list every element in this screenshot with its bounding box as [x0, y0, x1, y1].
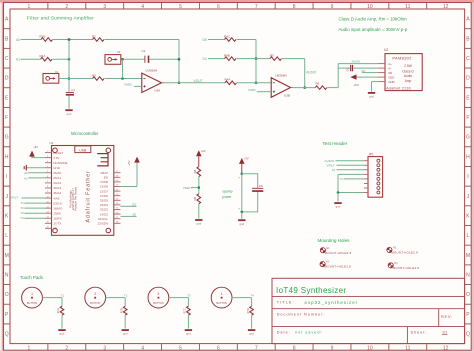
svg-text:N: N: [466, 273, 470, 279]
wire button 2 to T2 node: [106, 297, 126, 299]
svg-text:4: 4: [221, 292, 223, 296]
svg-text:L: L: [5, 233, 8, 239]
touch button S4: [211, 287, 232, 308]
svg-text:BUTTON: BUTTON: [153, 302, 163, 305]
svg-text:Particle Pin Name: Particle Pin Name: [74, 187, 78, 211]
svg-text:Class D Audio Amp, Rin = 10kOh: Class D Audio Amp, Rin = 10kOhm: [339, 17, 408, 22]
svg-text:not saved!: not saved!: [295, 331, 323, 335]
svg-text:BUTTON: BUTTON: [90, 302, 100, 305]
svg-text:U1: U1: [50, 141, 54, 145]
wire button 3 to T3 node: [169, 297, 189, 299]
wire VMID stub: [191, 187, 199, 189]
svg-text:O: O: [5, 292, 9, 298]
svg-text:1: 1: [31, 292, 33, 296]
wire X2 to C2: [121, 58, 145, 60]
svg-text:I: I: [467, 174, 468, 180]
svg-text:4/A5: 4/A5: [53, 196, 60, 200]
wire VMID to U3B noninverting input: [257, 91, 271, 93]
svg-text:T3: T3: [187, 294, 191, 298]
svg-text:AUDIO: AUDIO: [325, 159, 335, 163]
svg-text:gnd: gnd: [336, 205, 341, 209]
wire R3 to op-amp inverting input: [105, 78, 142, 80]
wire T3 down: [187, 298, 189, 307]
svg-text:25/A1: 25/A1: [53, 176, 61, 180]
ground below C1: [65, 109, 72, 111]
svg-text:R4A: R4A: [225, 78, 231, 82]
wire T2 down: [124, 298, 126, 307]
svg-text:BUTTON: BUTTON: [27, 302, 37, 305]
microcontroller U1 Adafruit Feather: [52, 146, 114, 236]
header JP1: [368, 157, 383, 198]
svg-text:D5: D5: [203, 38, 207, 42]
svg-text:13/D8: 13/D8: [100, 185, 108, 189]
wire R4B to node: [237, 58, 271, 60]
svg-text:7: 7: [255, 346, 258, 352]
svg-text:R7C: R7C: [183, 308, 187, 313]
svg-text:REV:: REV:: [441, 315, 453, 319]
svg-text:H1: H1: [326, 246, 330, 250]
wire VOUT: [165, 82, 226, 84]
svg-text:VBAT: VBAT: [100, 171, 108, 175]
svg-text:SD: SD: [388, 71, 392, 75]
wire T1 to JP1 pin5: [344, 178, 365, 180]
touch button S1: [22, 287, 43, 308]
svg-text:gnd: gnd: [196, 222, 201, 226]
node inverting input junction: [121, 77, 124, 80]
svg-text:H2: H2: [326, 260, 330, 264]
svg-text:VFILT: VFILT: [10, 196, 18, 200]
wire A1: [21, 58, 41, 60]
wire cap branch: [242, 174, 258, 212]
svg-text:U3A: U3A: [154, 88, 161, 92]
svg-text:+5V: +5V: [353, 83, 358, 87]
title block: [272, 278, 465, 343]
svg-text:T3: T3: [20, 211, 24, 215]
svg-text:C: C: [5, 56, 9, 62]
svg-text:opamp: opamp: [222, 189, 232, 193]
svg-text:2.5W: 2.5W: [404, 64, 413, 68]
frame row ticks and letters: [4, 28, 11, 30]
svg-text:LM358N: LM358N: [275, 73, 287, 77]
svg-text:T1: T1: [61, 294, 65, 298]
svg-text:JP1: JP1: [368, 153, 374, 157]
wire summing2 vertical: [255, 40, 257, 83]
wire feedback vertical: [178, 40, 180, 83]
wire R7A to ground: [61, 315, 63, 328]
node opamp power bottom junction: [241, 211, 244, 214]
wire R5 to output: [282, 58, 305, 60]
wire summing vertical: [68, 40, 70, 92]
svg-text:3: 3: [157, 292, 159, 296]
ground at opamp power: [238, 219, 245, 221]
svg-text:21: 21: [53, 227, 57, 231]
wire audio riser to C6: [338, 67, 350, 69]
svg-text:26/A0: 26/A0: [53, 171, 61, 175]
svg-text:GND: GND: [388, 80, 394, 84]
svg-text:gnd: gnd: [186, 332, 191, 336]
svg-text:R4C: R4C: [224, 34, 231, 38]
wire +5V to VDD: [357, 76, 378, 78]
svg-text:LM358N: LM358N: [146, 69, 158, 73]
svg-text:MOUNT-HOLE2.8: MOUNT-HOLE2.8: [393, 266, 420, 270]
svg-text:IoT49 Synthesizer: IoT49 Synthesizer: [276, 286, 346, 295]
svg-text:VFILT: VFILT: [327, 163, 335, 167]
wire +3V to 3.3V pin: [32, 157, 45, 159]
svg-text:T4: T4: [20, 216, 24, 220]
svg-text:8: 8: [293, 4, 296, 10]
node row B junction: [68, 38, 71, 41]
wire to VMID node: [198, 177, 200, 194]
svg-text:3: 3: [103, 346, 106, 352]
svg-text:32/D3: 32/D3: [100, 208, 108, 212]
svg-text:power: power: [222, 195, 232, 199]
battery connector on U1: [97, 154, 108, 166]
svg-text:1: 1: [28, 346, 31, 352]
svg-text:D: D: [466, 76, 470, 82]
svg-text:MOUNT-HOLE2.8: MOUNT-HOLE2.8: [325, 251, 352, 255]
frame column ticks and numbers: [47, 3, 49, 10]
ground at touch pad 4: [248, 329, 255, 331]
svg-text:12/D7: 12/D7: [100, 189, 108, 193]
svg-text:A1: A1: [24, 176, 28, 180]
svg-text:gnd: gnd: [60, 332, 65, 336]
wire opamp power vertical: [241, 174, 243, 212]
wire A0 at U1: [28, 172, 45, 174]
svg-text:33/D5: 33/D5: [100, 199, 108, 203]
wire R7B to ground: [124, 315, 126, 328]
svg-text:+5V: +5V: [127, 160, 131, 165]
U1 right pins: [114, 172, 121, 174]
wire R1A to summing node: [53, 58, 70, 60]
wire amp GND down: [372, 81, 378, 83]
svg-text:Mounting Holes: Mounting Holes: [318, 238, 351, 243]
wire R7C to ground: [187, 315, 189, 328]
svg-text:Amp: Amp: [405, 79, 412, 83]
wire R4C to node: [237, 39, 257, 41]
svg-text:39/A3: 39/A3: [53, 186, 61, 190]
touch button S3: [148, 287, 169, 308]
ground at JP1: [334, 202, 341, 204]
svg-text:T4: T4: [250, 294, 254, 298]
svg-text:5/SCK: 5/SCK: [53, 201, 62, 205]
svg-text:12: 12: [443, 4, 449, 10]
svg-text:PAM8302: PAM8302: [392, 56, 412, 61]
svg-text:23/SDA: 23/SDA: [97, 222, 108, 226]
node summing junction row C: [68, 58, 71, 61]
svg-text:19/MI: 19/MI: [53, 211, 61, 215]
svg-text:gnd: gnd: [369, 95, 374, 99]
+5V supply arrow at amp VDD: [350, 74, 356, 79]
svg-text:GND: GND: [53, 166, 61, 170]
wire D4: [208, 58, 225, 60]
svg-text:Touch Pads: Touch Pads: [20, 275, 44, 280]
svg-text:O: O: [466, 292, 470, 298]
wire audio to amp A+: [338, 63, 377, 65]
wire X1 to summing node: [59, 78, 69, 80]
svg-text:10: 10: [367, 4, 373, 10]
svg-text:VOUT: VOUT: [194, 79, 203, 83]
svg-text:Date:: Date:: [277, 331, 291, 335]
svg-text:H4: H4: [394, 261, 398, 265]
svg-text:4: 4: [141, 4, 144, 10]
svg-text:8: 8: [293, 346, 296, 352]
svg-text:5: 5: [179, 4, 182, 10]
svg-text:+3V: +3V: [201, 149, 206, 153]
svg-text:Audio input amplitude = 300mV: Audio input amplitude = 300mV p-p: [339, 27, 408, 32]
U1 left pins: [45, 152, 52, 154]
svg-text:1/1: 1/1: [442, 331, 447, 335]
wire SD to amp: [362, 72, 378, 74]
wire button 4 to T4 node: [232, 297, 252, 299]
svg-text:12: 12: [443, 346, 449, 352]
svg-text:D4: D4: [203, 57, 207, 61]
svg-text:10: 10: [367, 346, 373, 352]
svg-text:EN: EN: [104, 176, 108, 180]
svg-text:T1: T1: [339, 177, 343, 181]
svg-text:VDD: VDD: [388, 76, 394, 80]
svg-text:C2: C2: [142, 49, 146, 53]
svg-text:2: 2: [65, 4, 68, 10]
svg-text:gnd: gnd: [249, 332, 254, 336]
svg-text:TITLE:: TITLE:: [277, 300, 295, 304]
wire A1 to JP1 pin3: [337, 169, 365, 171]
wire R1B to R2: [53, 39, 93, 41]
svg-text:D: D: [5, 76, 9, 82]
svg-text:7: 7: [255, 4, 258, 10]
svg-text:VMID: VMID: [248, 88, 257, 92]
svg-text:2: 2: [94, 292, 96, 296]
wire opamp power to ground: [241, 212, 243, 219]
touch button S2: [85, 287, 106, 308]
svg-text:18/MO: 18/MO: [53, 206, 63, 210]
op-amp U3A output pin: [162, 82, 165, 84]
wire +5V to U1: [136, 163, 138, 187]
svg-text:G: G: [466, 135, 470, 141]
wire VFILT at U1: [22, 197, 46, 199]
svg-text:VMID: VMID: [183, 186, 192, 190]
svg-text:F: F: [5, 115, 8, 121]
svg-text:3: 3: [103, 4, 106, 10]
svg-text:M: M: [466, 253, 470, 259]
svg-text:14/D2: 14/D2: [100, 212, 108, 216]
svg-text:9: 9: [331, 346, 334, 352]
svg-text:I: I: [6, 174, 7, 180]
svg-text:M: M: [5, 253, 9, 259]
node JP1 ground junction: [337, 191, 340, 194]
wire R2 to feedback vertical: [105, 39, 180, 41]
svg-text:gnd: gnd: [67, 112, 72, 116]
wire C1 to ground: [68, 96, 70, 109]
svg-text:6: 6: [217, 4, 220, 10]
wire R4A to inverting input U3B: [237, 82, 271, 84]
ground at touch pad 3: [185, 329, 192, 331]
svg-text:Sheet:: Sheet:: [411, 331, 428, 335]
svg-text:Q: Q: [5, 332, 9, 338]
wire AUDIO to JP1 pin1: [336, 160, 365, 162]
wire VFILT to JP1 pin2: [337, 164, 365, 166]
ground at touch pad 1: [58, 329, 65, 331]
svg-text:A0: A0: [16, 38, 20, 42]
wire C2 to feedback vertical: [149, 58, 179, 60]
wire gnd to U1: [27, 167, 45, 169]
svg-text:gnd: gnd: [239, 222, 244, 226]
svg-text:Filter and Summing Amplifier: Filter and Summing Amplifier: [27, 16, 94, 21]
svg-text:4: 4: [141, 346, 144, 352]
svg-text:15/D4: 15/D4: [100, 203, 108, 207]
svg-text:16/RX: 16/RX: [53, 216, 61, 220]
wire R7D to ground: [251, 315, 253, 328]
svg-text:27/D6: 27/D6: [100, 194, 108, 198]
svg-text:AUDIO: AUDIO: [306, 70, 317, 74]
node C2 left junction: [121, 58, 124, 61]
svg-text:H: H: [5, 154, 9, 160]
wire R6 to riser: [327, 87, 338, 89]
svg-text:+3V: +3V: [244, 157, 249, 161]
svg-text:NC/MODE: NC/MODE: [53, 161, 67, 165]
svg-text:A-: A-: [388, 67, 391, 71]
svg-text:T1: T1: [20, 201, 24, 205]
svg-text:A0: A0: [24, 171, 28, 175]
svg-text:RESET: RESET: [53, 151, 63, 155]
ground at divider: [195, 219, 202, 221]
node opamp power top junction: [241, 173, 244, 176]
wire audio riser: [337, 64, 339, 88]
svg-text:Class-D: Class-D: [402, 69, 414, 73]
wire VMID to noninverting input: [134, 85, 142, 87]
svg-text:MOUNT-HOLE2.8: MOUNT-HOLE2.8: [391, 251, 418, 255]
svg-text:Microcontroller: Microcontroller: [71, 131, 99, 136]
wire D5: [208, 39, 225, 41]
svg-text:R6: R6: [316, 81, 320, 85]
svg-text:11: 11: [405, 346, 410, 352]
ground symbol at U1 GND pin: [25, 165, 27, 171]
svg-text:L: L: [467, 233, 470, 239]
svg-text:VUSB: VUSB: [100, 180, 108, 184]
svg-text:R4B: R4B: [224, 53, 230, 57]
svg-text:G: G: [5, 135, 9, 141]
wire A1 at U1: [28, 177, 45, 179]
svg-text:+3V: +3V: [33, 145, 38, 149]
svg-text:11: 11: [405, 4, 410, 10]
wire feedback2 vertical: [304, 59, 306, 88]
svg-text:A+: A+: [388, 62, 392, 66]
mounting hole H1: [320, 248, 325, 253]
svg-text:5: 5: [179, 346, 182, 352]
svg-text:H: H: [466, 154, 470, 160]
svg-text:22/SCL: 22/SCL: [98, 217, 108, 221]
amplifier module U2 PAM8302: [385, 54, 422, 91]
svg-text:R7D: R7D: [246, 308, 250, 313]
svg-text:34/A2: 34/A2: [53, 181, 61, 185]
wire inverting input vertical: [122, 59, 124, 78]
svg-text:AUDIO: AUDIO: [352, 59, 361, 63]
mounting hole H2: [320, 261, 325, 266]
svg-text:Test Header: Test Header: [323, 141, 348, 146]
svg-text:Document Number:: Document Number:: [277, 313, 326, 317]
svg-text:17/TX: 17/TX: [53, 222, 61, 226]
svg-text:C5: C5: [259, 184, 263, 188]
svg-text:U3B: U3B: [284, 93, 290, 97]
svg-text:9: 9: [331, 4, 334, 10]
svg-text:T2: T2: [20, 206, 24, 210]
svg-text:6: 6: [217, 346, 220, 352]
svg-text:Adafruit Feather: Adafruit Feather: [86, 170, 92, 222]
svg-text:F: F: [466, 115, 469, 121]
node VMID junction: [198, 186, 201, 189]
svg-text:Q: Q: [466, 332, 470, 338]
svg-text:T2: T2: [124, 294, 128, 298]
svg-text:A1: A1: [332, 168, 336, 172]
svg-text:esp32_synthesizer: esp32_synthesizer: [305, 300, 359, 305]
svg-text:36/A4: 36/A4: [53, 191, 61, 195]
svg-text:H3: H3: [393, 246, 397, 250]
wire U3B output to AUDIO node: [293, 87, 315, 89]
ground at touch pad 2: [122, 329, 129, 331]
svg-text:R7A: R7A: [56, 308, 60, 313]
svg-text:1: 1: [28, 4, 31, 10]
mounting hole H4: [388, 263, 393, 268]
svg-text:USB: USB: [79, 148, 87, 152]
svg-text:U2: U2: [384, 48, 388, 52]
wire A0: [21, 39, 42, 41]
svg-text:Audio: Audio: [404, 74, 413, 78]
svg-text:gnd: gnd: [123, 332, 128, 336]
wire divider to ground: [198, 204, 200, 219]
svg-text:N: N: [5, 273, 9, 279]
svg-text:VMID: VMID: [124, 83, 133, 87]
wire T4 down: [251, 298, 253, 307]
op-amp U3B output pin: [291, 87, 294, 89]
svg-text:2: 2: [65, 346, 68, 352]
svg-text:MOUNT-HOLE2.8: MOUNT-HOLE2.8: [325, 265, 352, 269]
svg-text:BUTTON: BUTTON: [216, 302, 226, 305]
wire JP1 pin4 to ground rail: [338, 173, 364, 175]
svg-text:R7B: R7B: [119, 308, 123, 313]
svg-text:C: C: [466, 56, 470, 62]
svg-text:C1: C1: [71, 88, 75, 92]
ground at amp: [368, 92, 375, 94]
svg-text:Adafruit 2130: Adafruit 2130: [386, 87, 411, 91]
svg-text:A1: A1: [16, 58, 20, 62]
wire T1 down: [61, 298, 63, 307]
wire button 1 to T1 node: [42, 297, 62, 299]
wire to R3: [69, 78, 93, 80]
svg-text:X2: X2: [117, 50, 121, 54]
USB connector on U1: [75, 146, 91, 153]
wire JP1 pin8 to ground: [338, 192, 364, 194]
svg-text:3.3V: 3.3V: [53, 156, 60, 160]
mounting hole H3: [387, 247, 392, 252]
wire C6 to A- pin: [353, 67, 377, 69]
